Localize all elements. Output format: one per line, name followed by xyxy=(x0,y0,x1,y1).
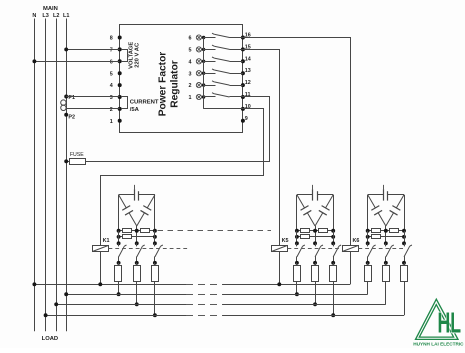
svg-text:FUSE: FUSE xyxy=(70,152,84,158)
svg-text:6: 6 xyxy=(110,59,113,65)
svg-text:8: 8 xyxy=(110,36,113,42)
wire pin 10 to contactor K1 coil xyxy=(101,109,264,246)
switch K1 pole 3 xyxy=(154,243,156,246)
svg-text:7: 7 xyxy=(110,48,113,54)
resistor R2c row2 xyxy=(297,236,333,238)
svg-text:LOAD: LOAD xyxy=(42,336,58,342)
fuse bank1 phase3 xyxy=(154,263,156,266)
svg-text:HL: HL xyxy=(438,309,462,340)
svg-text:14: 14 xyxy=(245,56,251,62)
wire K5 linkage dashed xyxy=(288,248,341,250)
wire bank2 phase2 drop xyxy=(315,226,317,243)
wire K1 linkage dashed xyxy=(109,248,189,250)
switch K6 pole 2 xyxy=(385,243,387,246)
svg-text:1: 1 xyxy=(189,95,192,101)
wire L1 horizontal bus xyxy=(66,294,186,296)
switch K1 pole 2 xyxy=(136,243,138,246)
svg-text:4: 4 xyxy=(189,59,192,65)
svg-text:/5A: /5A xyxy=(130,107,140,113)
fuse bank1 phase2 xyxy=(136,263,138,266)
wire bank3 phase1 drop xyxy=(367,195,369,231)
capacitor C1c right diagonal xyxy=(147,195,155,208)
contactor K6 coil xyxy=(343,246,359,252)
wire bank2 phase1 drop xyxy=(296,195,298,231)
svg-text:3: 3 xyxy=(189,71,192,77)
node L2 bus taps xyxy=(54,302,58,306)
resistor R2a row1 xyxy=(297,230,333,232)
fuse bank2 phase2 xyxy=(315,263,317,266)
svg-text:Power Factor: Power Factor xyxy=(157,52,168,117)
svg-text:CURRENT: CURRENT xyxy=(130,99,159,105)
wire pin 16 to contactor K6 coil xyxy=(243,38,351,246)
switch K6 pole 1 xyxy=(367,243,369,246)
wire L3 vertical bus xyxy=(45,19,47,332)
svg-text:K1: K1 xyxy=(103,238,110,244)
wire bank2 phase3 drop xyxy=(333,195,335,231)
wire K6 coil to N bus xyxy=(350,252,352,285)
svg-text:13: 13 xyxy=(245,68,251,74)
svg-text:K5: K5 xyxy=(282,238,289,244)
node bank1 junctions xyxy=(117,229,121,233)
contactor K1 coil xyxy=(93,246,109,252)
svg-text:5: 5 xyxy=(110,71,113,77)
transformer CT winding xyxy=(61,100,66,105)
wire pin7 to L1 xyxy=(66,49,120,51)
resistor R3b row1 xyxy=(390,229,399,233)
fuse bank1 phase1 xyxy=(118,263,120,266)
svg-text:N: N xyxy=(32,13,36,19)
capacitor C2a top xyxy=(297,194,313,196)
switch K6 pole 3 xyxy=(404,243,406,246)
wire bank1 phase1 drop xyxy=(118,195,120,231)
resistor R2b row1 xyxy=(319,229,328,233)
svg-text:11: 11 xyxy=(245,92,251,98)
wire N horizontal bus xyxy=(34,284,186,286)
wire bank1 phase2 drop xyxy=(136,226,138,243)
resistor R1b row1 xyxy=(141,229,150,233)
svg-text:L1: L1 xyxy=(63,13,69,19)
fuse bank3 phase3 xyxy=(404,263,406,266)
op-amp U1 Power Factor Regulator box xyxy=(120,25,243,133)
resistor R1a row1 xyxy=(119,230,155,232)
svg-text:MAIN: MAIN xyxy=(43,6,58,12)
fuse bank3 phase1 xyxy=(367,263,369,266)
transformer CT P1 xyxy=(64,95,68,99)
wire fuse to pin 11 xyxy=(85,97,269,162)
wire K6 linkage dashed xyxy=(358,248,404,250)
fuse bank2 phase1 xyxy=(296,263,298,266)
svg-text:4: 4 xyxy=(110,83,113,89)
svg-text:220 V AC: 220 V AC xyxy=(134,42,140,68)
bracket voltage input pins 7-6 xyxy=(122,50,128,62)
svg-text:9: 9 xyxy=(245,116,248,122)
wire CT to pin2 xyxy=(66,108,120,110)
wire pin 15 to contactor K5 coil xyxy=(243,50,280,246)
node N bus taps xyxy=(32,282,36,286)
svg-text:HUYNH LAI ELECTRIC: HUYNH LAI ELECTRIC xyxy=(413,342,464,347)
wire L2 vertical bus xyxy=(56,19,58,332)
svg-text:L3: L3 xyxy=(42,13,48,19)
wire bank1 phase3 drop xyxy=(154,195,156,231)
wire K5 coil to N bus xyxy=(279,252,281,285)
contactor K5 coil xyxy=(272,246,288,252)
fuse bank3 phase2 xyxy=(385,263,387,266)
wire L1 vertical bus xyxy=(66,19,68,332)
node bank3 junctions xyxy=(366,229,370,233)
switch K1 pole 1 xyxy=(118,243,120,246)
switch K5 pole 1 xyxy=(296,243,298,246)
svg-text:P2: P2 xyxy=(68,115,75,121)
svg-text:1: 1 xyxy=(110,119,113,125)
fuse bank2 phase3 xyxy=(333,263,335,266)
capacitor C3a top xyxy=(368,194,384,196)
svg-text:Regulator: Regulator xyxy=(170,60,181,108)
capacitor C3b left diagonal xyxy=(368,195,376,208)
capacitor C1a top xyxy=(119,194,135,196)
capacitor C3c right diagonal xyxy=(396,195,404,208)
wire contact common bus xyxy=(203,38,205,109)
wire dashed row extension xyxy=(158,230,272,232)
capacitor C1b left diagonal xyxy=(119,195,127,208)
resistor R3a row1 xyxy=(368,230,404,232)
svg-text:2: 2 xyxy=(110,107,113,113)
svg-text:2: 2 xyxy=(189,83,192,89)
svg-text:5: 5 xyxy=(189,48,192,54)
capacitor C2b left diagonal xyxy=(297,195,305,208)
svg-text:K6: K6 xyxy=(353,238,360,244)
wire N vertical bus xyxy=(34,19,36,332)
wire CT to pin3 xyxy=(66,96,120,98)
node bank2 junctions xyxy=(295,229,299,233)
resistor R1c row2 xyxy=(119,236,155,238)
node N voltage tap xyxy=(32,59,36,63)
node L1 voltage tap xyxy=(64,47,68,51)
wire bank3 phase2 drop xyxy=(385,226,387,243)
switch K5 pole 2 xyxy=(315,243,317,246)
capacitor C2c right diagonal xyxy=(326,195,334,208)
node L1 bus taps xyxy=(64,292,68,296)
switch K5 pole 3 xyxy=(333,243,335,246)
resistor R3c row2 xyxy=(368,236,404,238)
wire K1 coil to N bus xyxy=(100,252,102,285)
transformer CT P2 xyxy=(64,113,68,117)
svg-text:P1: P1 xyxy=(68,95,75,101)
bracket current input pins 3-2 xyxy=(122,97,128,109)
wire bank3 phase3 drop xyxy=(404,195,406,231)
wire L2 horizontal bus xyxy=(56,304,186,306)
logo HL triangle xyxy=(416,299,459,339)
svg-text:L2: L2 xyxy=(53,13,59,19)
svg-text:12: 12 xyxy=(245,80,251,86)
wire L3 horizontal bus xyxy=(46,315,186,317)
svg-text:6: 6 xyxy=(189,36,192,42)
node L3 bus taps xyxy=(44,313,48,317)
wire pin6 to N xyxy=(34,61,119,63)
